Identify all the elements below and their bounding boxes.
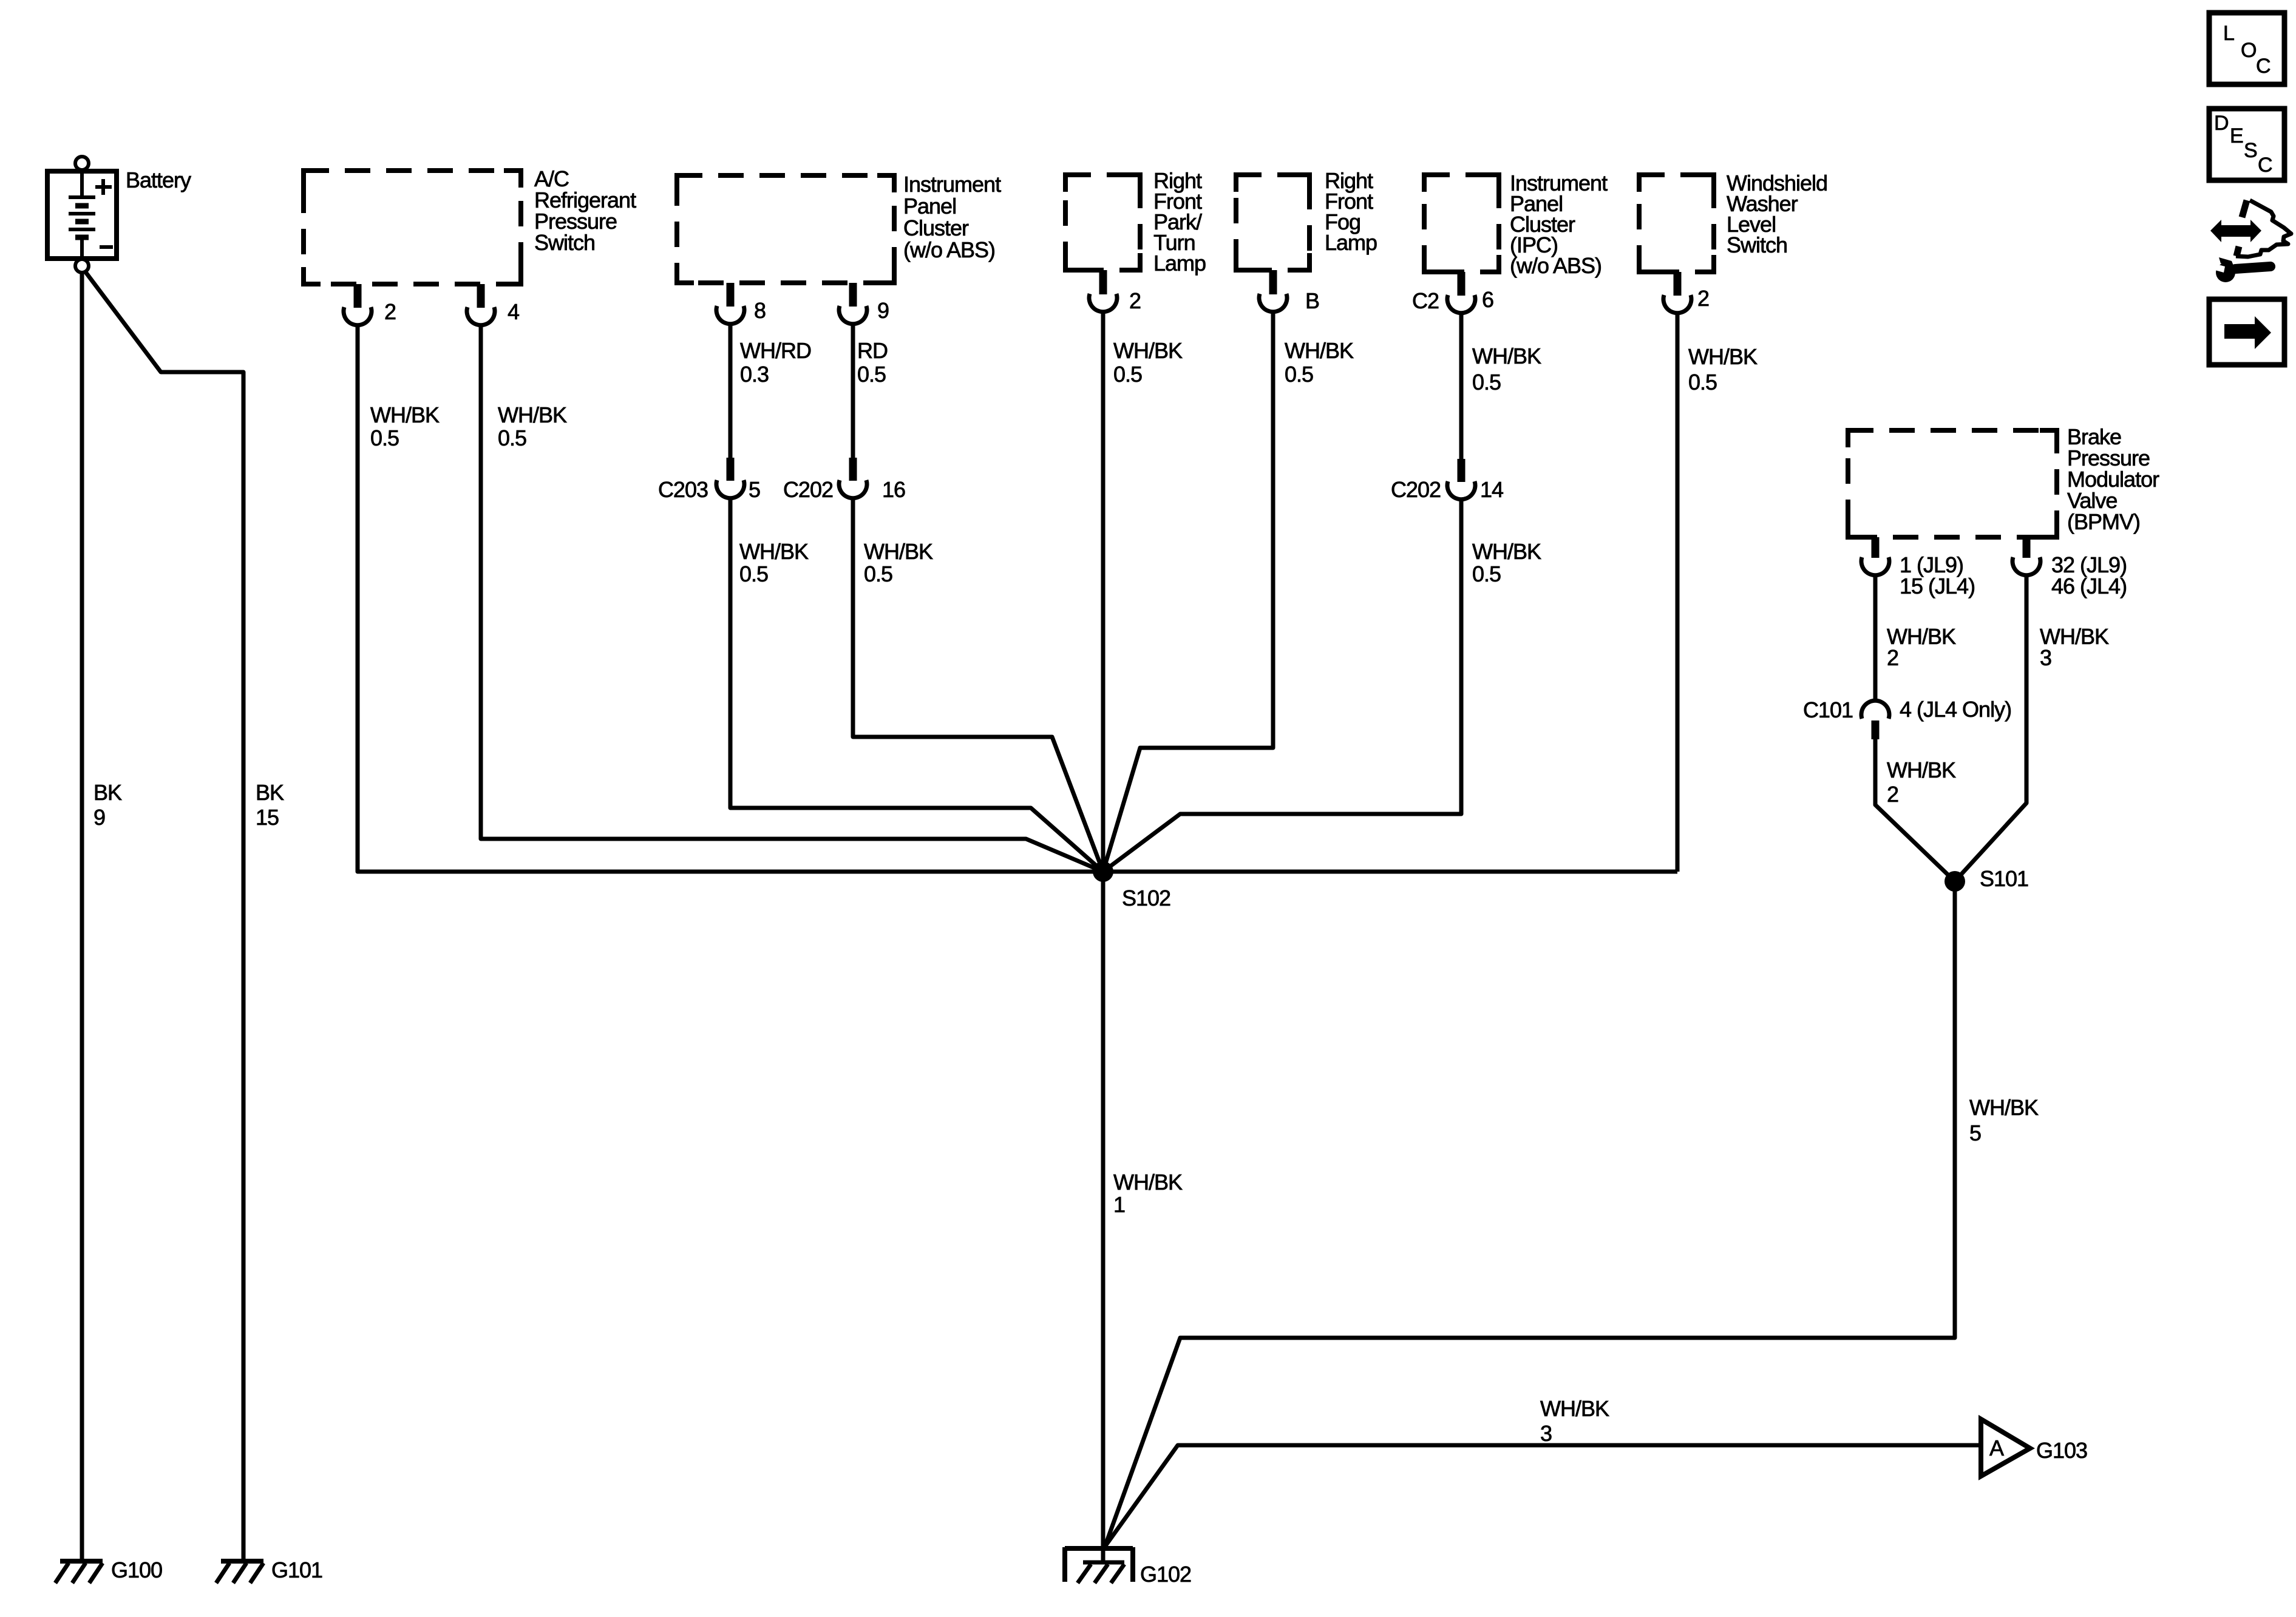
svg-text:RD: RD: [857, 338, 888, 363]
wire WH/BK 0.5 from C2-6 to C202: [1459, 313, 1464, 460]
pin 2 of park/turn lamp: [1099, 270, 1107, 294]
wire WH/BK 0.5 from C202-16 to S102: [853, 498, 1103, 872]
wire WH/BK 0.5 from A/C pin 2 to S102 (long horizontal): [358, 325, 1677, 872]
svg-text:WH/BK: WH/BK: [1113, 338, 1183, 363]
wire WH/BK 3 from G102 to grounds connector A (G103): [1105, 1445, 1979, 1547]
svg-text:0.5: 0.5: [739, 561, 768, 586]
svg-text:9: 9: [877, 298, 889, 323]
diagnostic icon: component outline: [2236, 200, 2291, 257]
svg-text:WH/BK: WH/BK: [498, 402, 567, 427]
wire WH/BK 0.5 from C203-5 to S102: [730, 498, 1103, 872]
instrument panel cluster (w/o ABS) box: [677, 175, 894, 283]
wire WH/RD 0.3 from pin 8 to C203: [729, 324, 733, 459]
connector C101 pin 4 (JL4 only): [1861, 700, 1889, 719]
svg-text:0.5: 0.5: [498, 425, 526, 450]
pin 2 of washer level switch: [1674, 272, 1682, 296]
svg-text:C: C: [2256, 55, 2271, 78]
windshield washer level switch box: [1639, 175, 1714, 272]
svg-text:14: 14: [1480, 477, 1503, 502]
battery + sign: [95, 185, 112, 189]
svg-text:Lamp: Lamp: [1153, 251, 1206, 276]
wire WH/BK 0.5 from A/C pin 4 to S102: [481, 325, 1103, 872]
svg-text:2: 2: [1887, 782, 1898, 807]
splice S101: [1944, 871, 1965, 892]
svg-text:WH/BK: WH/BK: [1688, 344, 1758, 369]
pin 2 of A/C switch: [354, 284, 362, 308]
svg-text:0.3: 0.3: [740, 362, 769, 387]
wire RD 0.5 from pin 9 to C202: [851, 324, 855, 459]
diagnostic icon: double arrow: [2210, 220, 2261, 242]
svg-text:4 (JL4 Only): 4 (JL4 Only): [1900, 697, 2011, 722]
svg-text:46 (JL4): 46 (JL4): [2051, 574, 2127, 598]
svg-text:WH/BK: WH/BK: [1540, 1396, 1609, 1421]
svg-text:C202: C202: [1391, 477, 1441, 502]
svg-text:Battery: Battery: [126, 168, 191, 192]
svg-text:Lamp: Lamp: [1325, 230, 1377, 255]
svg-text:15: 15: [256, 805, 279, 830]
svg-text:WH/BK: WH/BK: [1113, 1170, 1183, 1195]
svg-text:Instrument: Instrument: [903, 172, 1001, 197]
svg-text:Cluster: Cluster: [903, 215, 969, 240]
svg-text:2: 2: [1887, 645, 1898, 670]
svg-text:(w/o ABS): (w/o ABS): [1510, 253, 1601, 278]
diagnostic icon: slanted bar: [2242, 200, 2247, 217]
ground G100: [60, 1559, 103, 1564]
svg-text:2: 2: [384, 299, 396, 324]
svg-text:0.5: 0.5: [864, 561, 892, 586]
svg-text:16: 16: [882, 477, 905, 502]
svg-text:0.5: 0.5: [1472, 370, 1501, 395]
svg-text:2: 2: [1697, 286, 1709, 311]
battery terminal circle (bottom): [75, 259, 89, 273]
pin 8 of IPC: [727, 283, 735, 307]
svg-text:WH/BK: WH/BK: [864, 539, 933, 564]
battery B+ box: [47, 171, 117, 259]
brake pressure modulator valve (BPMV) box: [1848, 430, 2057, 537]
svg-text:6: 6: [1482, 287, 1493, 312]
svg-text:5: 5: [1969, 1120, 1981, 1145]
svg-text:2: 2: [1129, 288, 1141, 313]
svg-text:S102: S102: [1122, 886, 1170, 910]
svg-text:WH/BK: WH/BK: [1472, 539, 1541, 564]
svg-text:C202: C202: [783, 477, 833, 502]
svg-text:9: 9: [93, 805, 105, 830]
svg-text:C: C: [2258, 154, 2272, 177]
wire WH/BK 0.5 from fog lamp to S102: [1103, 312, 1273, 872]
svg-text:BK: BK: [256, 780, 284, 805]
pin 9 of IPC: [849, 283, 857, 307]
svg-text:G100: G100: [111, 1558, 162, 1582]
svg-text:WH/RD: WH/RD: [740, 338, 811, 363]
pin B of fog lamp: [1269, 270, 1277, 294]
svg-text:0.5: 0.5: [1113, 362, 1142, 387]
svg-text:C2: C2: [1412, 288, 1439, 313]
svg-text:(w/o ABS): (w/o ABS): [903, 237, 995, 262]
off-page connector triangle A: [1981, 1419, 2030, 1476]
pin 1 (JL9) / 15 (JL4) of BPMV: [1872, 537, 1880, 558]
wire WH/BK 0.5 from washer switch to S102: [1676, 313, 1680, 872]
ground G101: [221, 1559, 263, 1564]
ground G102: [1065, 1546, 1133, 1551]
svg-text:15 (JL4): 15 (JL4): [1900, 574, 1975, 598]
svg-text:WH/BK: WH/BK: [1969, 1095, 2039, 1120]
wire BK 9 from battery to G100: [80, 273, 84, 1561]
svg-text:D: D: [2214, 112, 2229, 135]
svg-text:B: B: [1305, 288, 1319, 313]
forward arrow: [2224, 316, 2271, 349]
connector C203 pin 5: [727, 458, 735, 481]
diagnostic icon: lower-left bar: [2237, 246, 2239, 256]
splice S102: [1093, 861, 1113, 882]
svg-text:C203: C203: [658, 477, 708, 502]
pin 32 (JL9) / 46 (JL4) of BPMV: [2023, 537, 2031, 558]
svg-text:0.5: 0.5: [1472, 561, 1501, 586]
svg-text:8: 8: [754, 298, 766, 323]
svg-text:WH/BK: WH/BK: [1472, 344, 1541, 368]
svg-text:0.5: 0.5: [1285, 362, 1313, 387]
A/C refrigerant pressure switch box: [304, 171, 521, 284]
wire BK 15 from battery to G101: [85, 271, 243, 1561]
wire WH/BK 0.5 from C202-14 to S102: [1103, 500, 1461, 872]
battery cell plates: [80, 174, 84, 197]
svg-text:3: 3: [2040, 645, 2051, 670]
right front fog lamp box: [1236, 175, 1309, 270]
diagnostic icon: wrench: [2216, 263, 2235, 282]
svg-text:Switch: Switch: [1727, 232, 1787, 257]
svg-text:WH/BK: WH/BK: [370, 402, 440, 427]
wire WH/BK 5 from S101 to G102: [1105, 881, 1955, 1547]
pin C2-6 of IPC: [1458, 272, 1466, 296]
svg-text:4: 4: [508, 299, 519, 324]
svg-text:Switch: Switch: [534, 230, 595, 255]
svg-text:5: 5: [749, 477, 760, 502]
right front park/turn lamp box: [1065, 175, 1140, 270]
svg-text:C101: C101: [1803, 697, 1853, 722]
svg-text:0.5: 0.5: [370, 425, 399, 450]
connector C202 pin 14: [1458, 459, 1466, 482]
svg-text:Panel: Panel: [903, 194, 956, 219]
wire WH/BK 2 from BPMV pin 1 to C101: [1873, 575, 1878, 702]
svg-text:L: L: [2223, 22, 2234, 45]
svg-text:0.5: 0.5: [1688, 370, 1717, 395]
svg-text:S: S: [2244, 139, 2257, 162]
svg-text:(BPMV): (BPMV): [2067, 509, 2140, 534]
DESC legend box: [2209, 109, 2284, 180]
svg-text:WH/BK: WH/BK: [1887, 758, 1956, 782]
svg-text:3: 3: [1540, 1421, 1552, 1446]
battery terminal circle (top): [75, 157, 89, 170]
svg-text:WH/BK: WH/BK: [739, 539, 809, 564]
svg-text:O: O: [2241, 39, 2256, 62]
battery - sign: [100, 245, 113, 249]
svg-text:G102: G102: [1140, 1562, 1191, 1587]
svg-text:S101: S101: [1980, 866, 2028, 891]
svg-text:1: 1: [1113, 1192, 1125, 1217]
svg-text:WH/BK: WH/BK: [1285, 338, 1354, 363]
LOC legend box: [2209, 13, 2284, 84]
connector C202 pin 16: [849, 458, 857, 481]
wire WH/BK 3 from BPMV pin 32 to S101: [1955, 575, 2026, 881]
instrument panel cluster (IPC) box: [1424, 175, 1499, 272]
svg-text:E: E: [2230, 124, 2243, 147]
svg-text:BK: BK: [93, 780, 122, 805]
pin 4 of A/C switch: [477, 284, 485, 308]
svg-text:G103: G103: [2036, 1438, 2087, 1463]
forward arrow legend box: [2209, 299, 2284, 365]
svg-text:G101: G101: [271, 1558, 322, 1582]
svg-text:0.5: 0.5: [857, 362, 886, 387]
svg-text:A: A: [1989, 1436, 2004, 1460]
wire WH/BK 2 from C101 to S101: [1875, 739, 1955, 881]
wire WH/BK 1 from park/turn pin 2 through S102 to G102: [1101, 312, 1106, 1564]
